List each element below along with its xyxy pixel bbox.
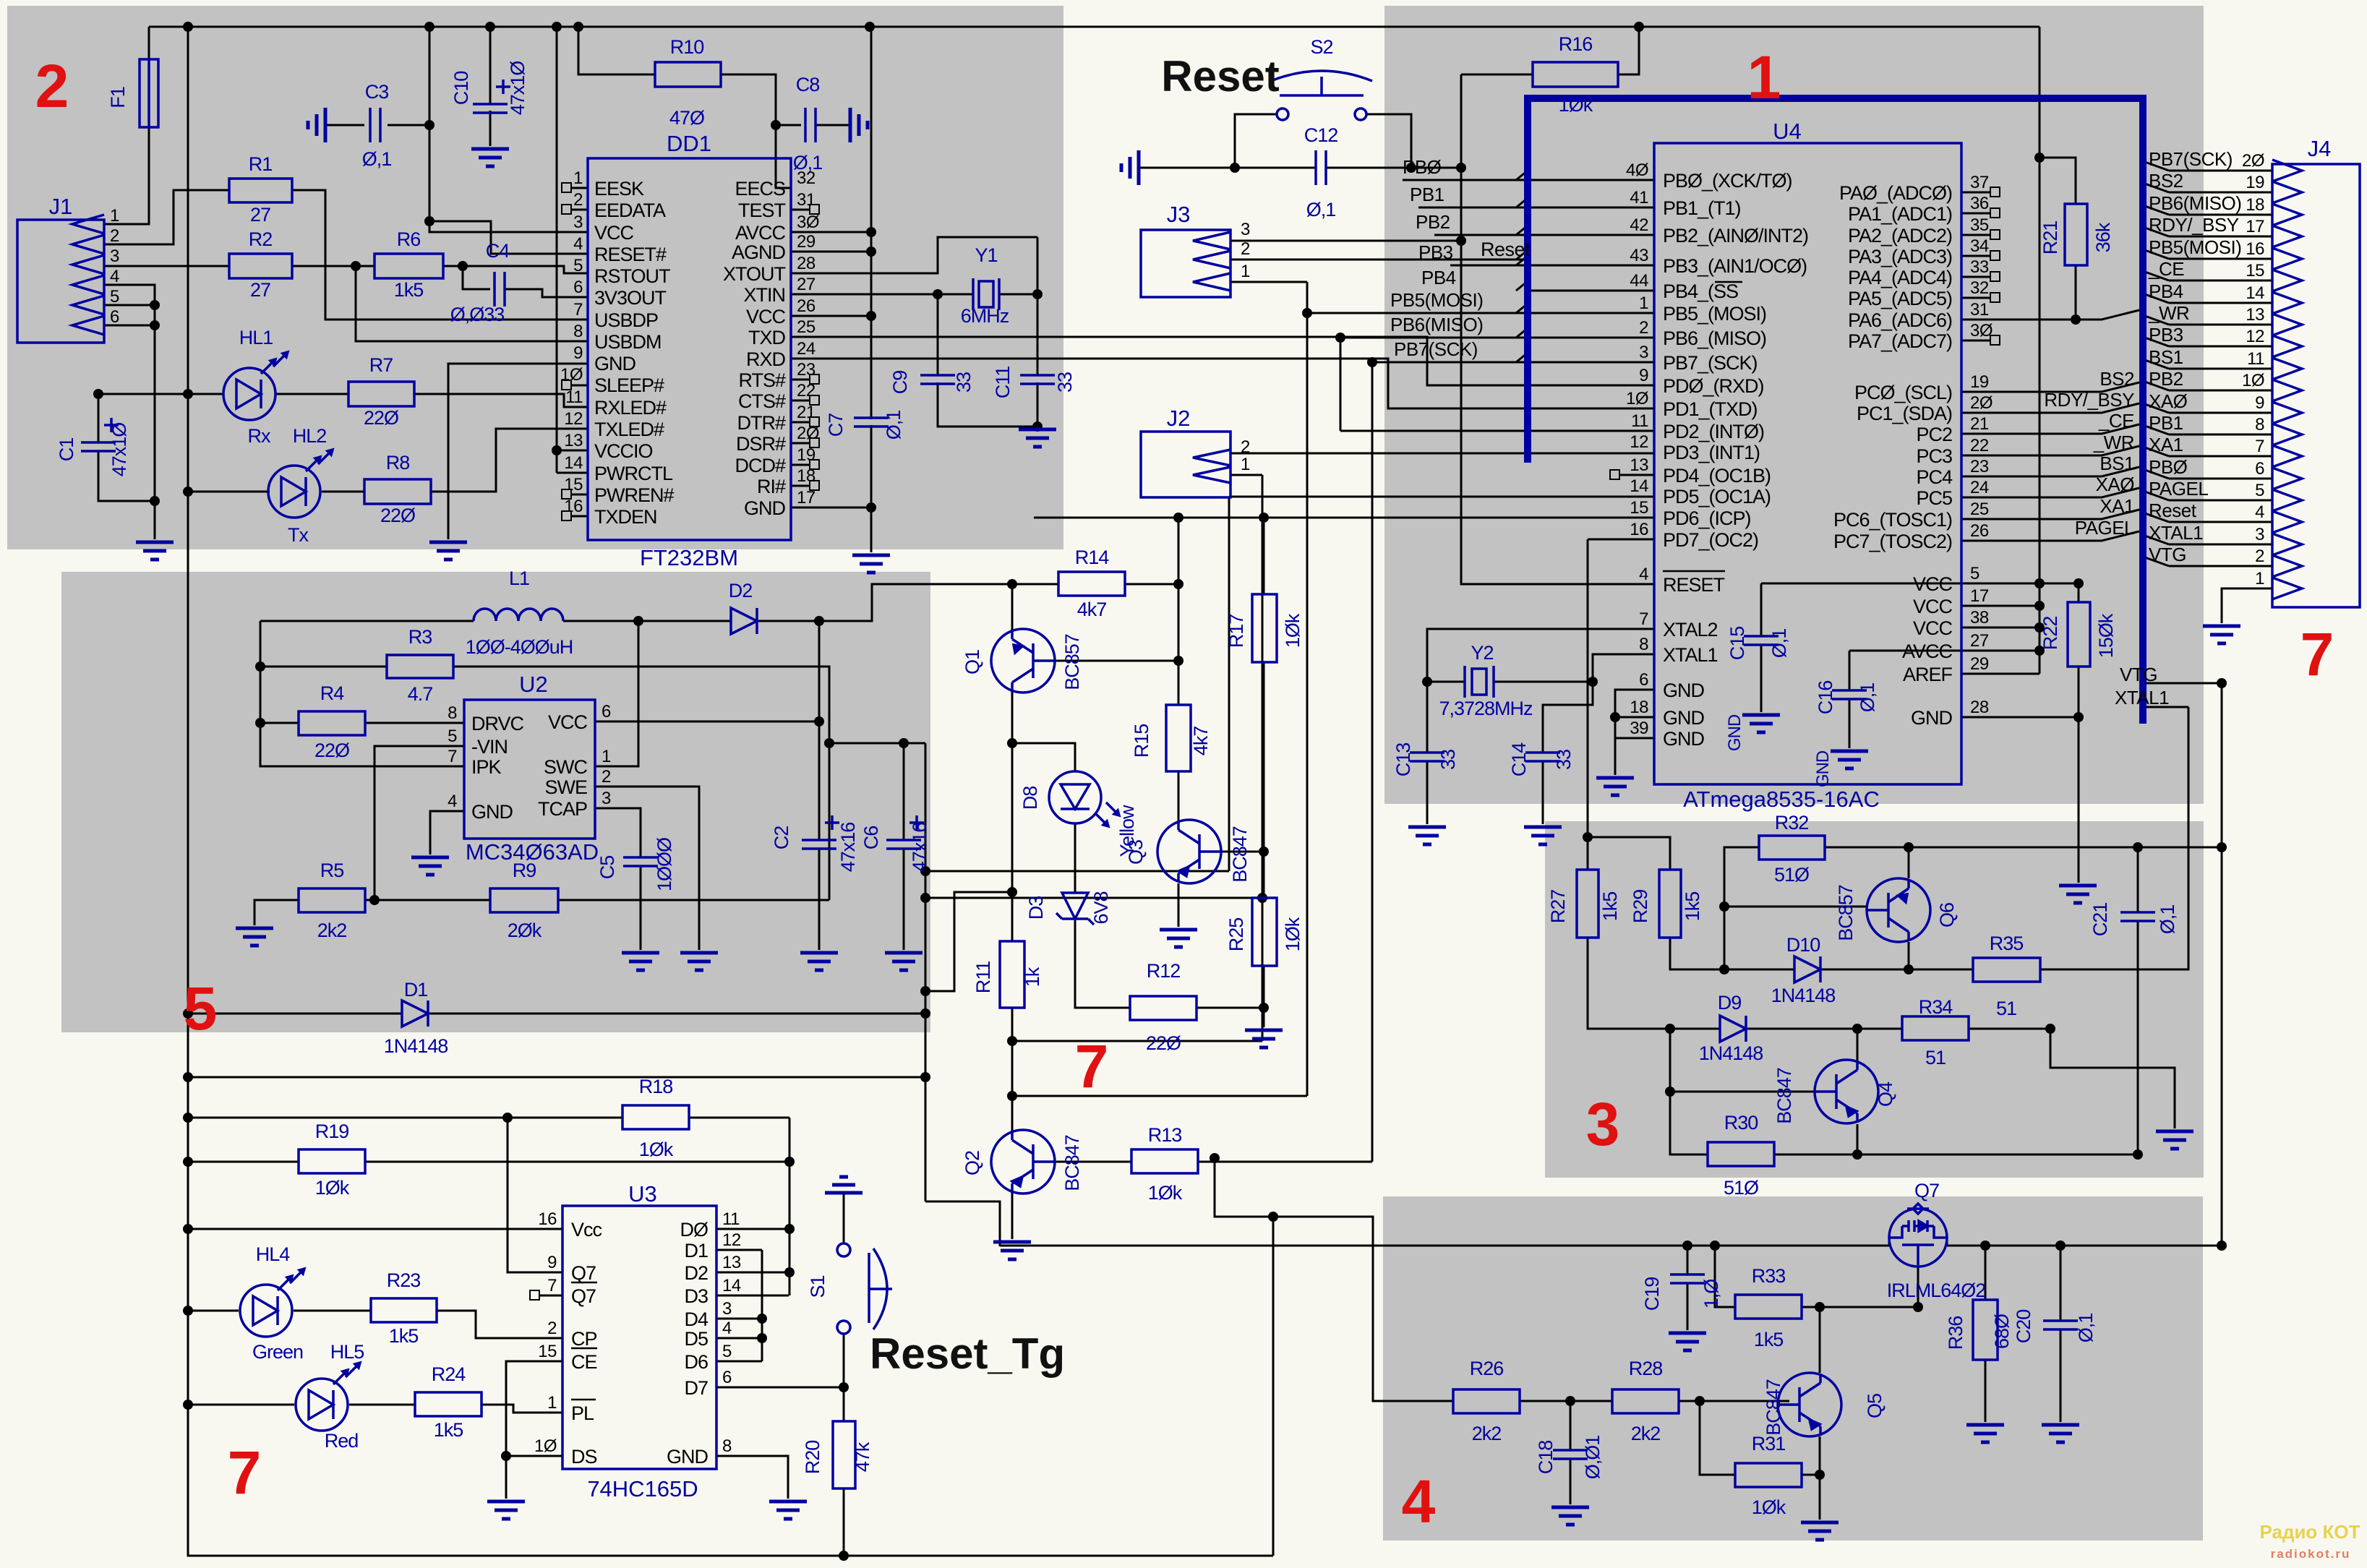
svg-text:RDY/_BSY: RDY/_BSY (2044, 389, 2134, 411)
wire U4 row PB0 (1528, 179, 1654, 181)
svg-text:R12: R12 (1147, 960, 1181, 982)
svg-text:25: 25 (797, 317, 816, 337)
wire Y2 leads (1427, 681, 1593, 683)
svg-text:17: 17 (797, 488, 816, 507)
capacitor C10 (473, 104, 508, 113)
wire Q7 lead bends (1889, 1238, 1947, 1246)
IC U4 ATmega8535 box (1654, 143, 1961, 784)
wire AREF row (1961, 673, 2039, 675)
wire GND drop (1614, 738, 1617, 775)
svg-text:GND: GND (1725, 714, 1745, 751)
svg-text:PB1: PB1 (2149, 412, 2183, 434)
capacitor C7 (854, 418, 889, 427)
svg-text:J2: J2 (1167, 406, 1191, 431)
ground (993, 1242, 1031, 1259)
junction (1173, 656, 1183, 666)
svg-text:1k5: 1k5 (434, 1419, 463, 1441)
svg-text:1k: 1k (1022, 967, 1043, 987)
svg-text:15: 15 (2246, 261, 2264, 280)
wire J1 pin3 to R2 (104, 265, 229, 267)
wire PD6 riser (1178, 518, 1180, 584)
svg-text:6V8: 6V8 (1090, 891, 1112, 924)
svg-text:1: 1 (1747, 43, 1781, 111)
junction (757, 1314, 767, 1324)
junction (1302, 308, 1312, 318)
ground (C8 right) (850, 108, 868, 142)
svg-text:Q5: Q5 (1864, 1394, 1886, 1418)
svg-text:1ØØØ: 1ØØØ (654, 837, 675, 891)
resistor R14 (1058, 572, 1125, 596)
wire R17 top riser (1263, 518, 1265, 594)
wire PA stub y513 (1961, 297, 1990, 299)
wire TXD to PD0 (791, 337, 1654, 385)
junction (2071, 314, 2081, 325)
wire PB7 SCK row (1372, 361, 1654, 364)
svg-text:PB3_(AIN1/OCØ): PB3_(AIN1/OCØ) (1663, 255, 1807, 277)
wire left drop to R30 (1670, 1029, 1708, 1154)
wire SCK vertical (1371, 362, 1374, 1162)
wire XTAL1 to R35 (2040, 707, 2188, 969)
junction (183, 1306, 193, 1316)
wire PA6 row to bus (1961, 310, 2139, 320)
svg-text:Q1: Q1 (962, 650, 983, 674)
svg-text:PB1_(T1): PB1_(T1) (1663, 197, 1741, 219)
svg-text:_CE: _CE (2098, 410, 2134, 432)
svg-text:2: 2 (2255, 547, 2264, 566)
svg-text:D5: D5 (684, 1328, 708, 1350)
svg-text:18: 18 (2246, 195, 2264, 215)
junction (1007, 579, 1017, 589)
svg-text:XTAL2: XTAL2 (1663, 619, 1718, 641)
junction (351, 261, 361, 271)
resistor R36 (1973, 1300, 1998, 1360)
wire J3 pin1 (1230, 281, 1307, 283)
wire y1490 row (188, 1076, 925, 1079)
svg-text:D8: D8 (1019, 787, 1041, 810)
junction (1456, 236, 1466, 246)
svg-text:R19: R19 (315, 1121, 349, 1142)
svg-text:Q4: Q4 (1875, 1081, 1896, 1107)
junction (2133, 842, 2143, 852)
svg-text:3Ø: 3Ø (797, 213, 819, 232)
svg-text:18: 18 (797, 466, 816, 486)
svg-text:TXLED#: TXLED# (594, 419, 664, 440)
svg-text:68Ø: 68Ø (1991, 1314, 2013, 1349)
ground (1160, 930, 1197, 947)
svg-text:7: 7 (448, 747, 457, 766)
wire R21 bottom to PA6 (2075, 265, 2077, 320)
wire R14 right (1125, 583, 1178, 586)
wire C8 row (776, 124, 850, 127)
wire J1 pin6 tie (104, 325, 155, 327)
svg-text:Reset: Reset (1481, 239, 1531, 260)
resistor R11 (1000, 941, 1024, 1008)
svg-text:J3: J3 (1167, 202, 1191, 227)
svg-text:RXLED#: RXLED# (594, 397, 667, 419)
svg-text:1Ø: 1Ø (2242, 371, 2264, 390)
svg-text:1N4148: 1N4148 (384, 1035, 448, 1057)
svg-text:R20: R20 (802, 1441, 823, 1475)
junction (757, 1333, 767, 1343)
wire S1 bottom (843, 1334, 845, 1387)
svg-text:33: 33 (1553, 750, 1575, 770)
junction (183, 1072, 193, 1082)
svg-text:31: 31 (1970, 300, 1989, 320)
svg-text:15: 15 (538, 1342, 557, 1361)
junction (502, 1113, 513, 1123)
svg-text:1: 1 (602, 747, 611, 766)
resistor R10 (655, 62, 721, 87)
svg-text:51Ø: 51Ø (1724, 1177, 1759, 1199)
svg-text:PBØ_(XCK/TØ): PBØ_(XCK/TØ) (1663, 170, 1792, 192)
nc pad (810, 417, 819, 427)
junction (1335, 333, 1345, 343)
connector J2 (1141, 432, 1230, 497)
IC DD1 FT232BM box (588, 158, 791, 540)
svg-text:3: 3 (1639, 343, 1648, 362)
wire XTOUT over crystal (791, 237, 1037, 273)
wire GND pin6 column (1615, 690, 1654, 738)
wire VCC drop to pin3 (429, 27, 588, 232)
svg-text:4Ø: 4Ø (1626, 160, 1648, 180)
svg-text:R21: R21 (2039, 221, 2061, 255)
svg-text:4: 4 (448, 792, 457, 811)
wire C18 column (1570, 1401, 1572, 1504)
resistor R13 (1131, 1149, 1198, 1173)
wire AVCC row (1849, 650, 2039, 652)
zener D3 6V8 (1056, 893, 1094, 925)
svg-text:24: 24 (1970, 478, 1989, 497)
wire PB1 left ext (1418, 207, 1528, 209)
wire U4 row PB1 (1528, 207, 1654, 209)
svg-text:7: 7 (1075, 1032, 1109, 1100)
wire U2 GND leg (430, 811, 464, 854)
svg-text:6MHz: 6MHz (961, 305, 1009, 327)
crystal Y1 6MHz (973, 278, 999, 310)
wire TCAP C5 leg (595, 808, 641, 950)
svg-text:C15: C15 (1726, 627, 1748, 661)
wire D8 to D3 (1074, 823, 1077, 893)
svg-text:D10: D10 (1786, 934, 1820, 956)
wire mid row A (925, 870, 1229, 873)
svg-text:C1: C1 (56, 438, 77, 462)
junction (424, 216, 435, 226)
wire D1 row (188, 1013, 925, 1015)
svg-text:1ØØ-4ØØuH: 1ØØ-4ØØuH (466, 636, 573, 658)
svg-text:R14: R14 (1075, 547, 1110, 568)
wire PC row y872 (1961, 488, 2139, 497)
svg-text:PL: PL (571, 1402, 594, 1424)
svg-text:SWE: SWE (544, 776, 587, 798)
svg-text:R16: R16 (1559, 33, 1593, 55)
capacitor C3 (370, 108, 380, 142)
ground (1831, 751, 1868, 768)
diode D2 (731, 608, 757, 634)
svg-text:GND: GND (594, 353, 636, 374)
wire XTAL2 to Y2 left (1427, 629, 1654, 682)
junction (183, 1157, 193, 1167)
svg-text:PB7(SCK): PB7(SCK) (1394, 338, 1478, 360)
wire J4 row y722 (2169, 521, 2272, 523)
nc pad (1610, 470, 1619, 479)
svg-text:1: 1 (2255, 569, 2264, 588)
resistor R6 (374, 254, 443, 278)
junction (1032, 421, 1043, 432)
svg-text:42: 42 (1630, 215, 1648, 235)
svg-text:6: 6 (110, 307, 119, 327)
junction (501, 1451, 511, 1461)
svg-text:EESK: EESK (594, 178, 644, 200)
wire HL1 to R7 (275, 393, 348, 395)
wire mid row B (925, 897, 1262, 899)
svg-text:S1: S1 (807, 1275, 829, 1298)
wire C16 column (1849, 651, 1851, 748)
resistor R16 (1533, 62, 1618, 87)
svg-text:PB2_(AINØ/INT2): PB2_(AINØ/INT2) (1663, 225, 1808, 247)
junction (573, 22, 583, 32)
wire XTOUT C11 leg (1037, 237, 1039, 429)
svg-text:12: 12 (722, 1230, 741, 1250)
junction (2217, 1241, 2227, 1251)
wire PA stub y325 (1961, 192, 1990, 194)
svg-text:PD1_(TXD): PD1_(TXD) (1663, 398, 1758, 420)
svg-text:PB4: PB4 (1421, 267, 1456, 288)
svg-text:VCC: VCC (1913, 573, 1953, 595)
wire EESK stub (571, 187, 588, 189)
svg-text:2: 2 (1639, 318, 1648, 338)
svg-text:Q7: Q7 (571, 1262, 596, 1284)
svg-text:CTS#: CTS# (738, 390, 786, 412)
IC U2 MC34063AD box (464, 700, 595, 839)
svg-text:BS1: BS1 (2149, 346, 2183, 368)
svg-text:7,3728MHz: 7,3728MHz (1439, 698, 1533, 719)
wire region4 rail left of Q7 (1000, 1245, 1889, 1247)
wire to VCCIO pin13 (557, 450, 588, 452)
wire node to USBDM pin8 (356, 266, 588, 341)
wire U3 GND leg (716, 1456, 788, 1499)
junction (183, 1113, 193, 1123)
svg-text:C19: C19 (1641, 1277, 1663, 1311)
svg-text:13: 13 (564, 431, 583, 450)
wire PWREN stub (571, 494, 588, 496)
wire rail to R33 (1715, 1246, 1735, 1307)
wire VCC6 row (595, 721, 819, 723)
wire R31 right (1802, 1474, 1820, 1476)
svg-text:PWRCTL: PWRCTL (594, 463, 673, 484)
svg-text:PD6_(ICP): PD6_(ICP) (1663, 507, 1751, 529)
svg-text:RESET#: RESET# (594, 244, 667, 265)
svg-text:8: 8 (448, 703, 457, 723)
junction (1719, 901, 1729, 912)
wire long right vertical (925, 743, 927, 1201)
svg-text:R30: R30 (1724, 1112, 1758, 1134)
junction (824, 738, 834, 748)
wire nCE leg (506, 1361, 562, 1499)
svg-text:Ø,1: Ø,1 (1306, 199, 1336, 220)
svg-text:6: 6 (2255, 459, 2264, 479)
LED HL2 Tx (268, 466, 320, 518)
svg-text:XTAL1: XTAL1 (1663, 644, 1718, 666)
wire Q1 collector chain (1011, 693, 1014, 941)
ground (1524, 827, 1562, 844)
wire R29 bottom (1670, 938, 1724, 969)
junction (2073, 712, 2084, 722)
svg-text:GND: GND (667, 1446, 709, 1468)
wire TXDEN stub (571, 515, 588, 518)
wire D6 row (716, 1361, 762, 1363)
svg-text:S2: S2 (1310, 36, 1332, 58)
svg-text:D4: D4 (684, 1308, 708, 1330)
junction (2034, 646, 2045, 656)
transistor lead stubs (1012, 629, 1909, 1436)
svg-text:Ø,1: Ø,1 (362, 148, 392, 170)
svg-text:R5: R5 (320, 860, 344, 881)
LED HL4 Green (240, 1285, 292, 1337)
wire R27 bottom to D9 row (1588, 938, 1670, 1029)
svg-text:D2: D2 (684, 1262, 708, 1284)
wire Q4 emitter (1857, 1124, 1859, 1154)
svg-text:7: 7 (2300, 620, 2334, 688)
svg-text:39: 39 (1630, 719, 1648, 738)
svg-text:Red: Red (325, 1430, 359, 1452)
wire GND pin17 row (791, 507, 871, 509)
wire J1 pin2 to R1 (104, 190, 229, 244)
wire R34 right (1969, 1028, 2050, 1030)
svg-text:13: 13 (722, 1253, 741, 1272)
svg-text:21: 21 (797, 403, 816, 422)
junction (458, 261, 468, 271)
svg-text:47x1Ø: 47x1Ø (108, 422, 130, 477)
junction (1710, 1241, 1720, 1251)
wire riser to bottom rail (1272, 1217, 1275, 1556)
svg-text:6: 6 (1639, 670, 1648, 690)
svg-text:7: 7 (547, 1276, 557, 1295)
svg-text:XA1: XA1 (2100, 495, 2134, 517)
wire row y1516 (1012, 1095, 1307, 1097)
junction (1665, 1087, 1675, 1097)
svg-text:R35: R35 (1990, 933, 2024, 954)
wire C4 branch to 3V3OUT pin6 (463, 266, 588, 297)
wire PA stub y363 (1961, 213, 1990, 215)
wire S2 left contact wire (1235, 114, 1277, 168)
svg-text:5: 5 (573, 256, 583, 275)
svg-text:VCCIO: VCCIO (594, 440, 653, 462)
svg-text:XTAL1: XTAL1 (2115, 687, 2169, 708)
wire J4 row y479 (2169, 346, 2272, 348)
LED HL5 Red (296, 1379, 348, 1431)
svg-text:23: 23 (797, 360, 816, 380)
shaded block 2 (7, 6, 1063, 549)
svg-text:27: 27 (797, 275, 816, 294)
svg-text:PAGEL: PAGEL (2075, 517, 2134, 539)
svg-text:4: 4 (722, 1319, 732, 1338)
svg-text:IRLML64Ø2: IRLML64Ø2 (1887, 1280, 1986, 1301)
svg-text:TCAP: TCAP (538, 798, 587, 820)
wire J4 row y327 (2169, 236, 2272, 238)
junction (552, 445, 562, 455)
svg-text:4k7: 4k7 (1190, 727, 1212, 756)
nc pad (810, 374, 819, 384)
resistor R1 (229, 179, 292, 202)
svg-text:14: 14 (1630, 476, 1648, 496)
junction (183, 1008, 193, 1019)
svg-text:Y1: Y1 (975, 244, 997, 266)
ground (429, 542, 467, 560)
junction (1695, 1396, 1705, 1406)
wire SWE leg (595, 787, 699, 950)
svg-text:PD3_(INT1): PD3_(INT1) (1663, 442, 1760, 463)
diode D10 1N4148 (1794, 956, 1820, 982)
wire R4 left (260, 722, 299, 724)
wire J4 row y236 (2169, 170, 2272, 172)
junction (150, 320, 160, 330)
wire TEST stub (791, 209, 810, 211)
wire VCC right riser (2039, 27, 2041, 674)
wire R22 bottom to gnd (2078, 583, 2080, 883)
svg-text:PB5(MOSI): PB5(MOSI) (1390, 289, 1483, 311)
junction (920, 893, 930, 903)
svg-text:C2: C2 (771, 826, 792, 850)
svg-text:14: 14 (2246, 283, 2264, 303)
resistor R18 (622, 1105, 689, 1129)
wire VCC pin5 row (1761, 583, 2079, 585)
junction (866, 247, 876, 257)
capacitor C9 (920, 375, 955, 384)
svg-text:VCC: VCC (1913, 617, 1953, 639)
svg-text:CP: CP (571, 1328, 597, 1350)
svg-text:R28: R28 (1629, 1358, 1663, 1379)
wire J4 row y631 (2169, 455, 2272, 458)
junction (866, 311, 876, 321)
svg-text:HL1: HL1 (239, 327, 273, 348)
svg-text:Q7: Q7 (1914, 1180, 1939, 1201)
wire R31 left leg (1700, 1401, 1735, 1475)
wire J4 row y571 (2169, 412, 2272, 414)
wire J4 row y753 (2169, 544, 2272, 546)
svg-text:Ø,1: Ø,1 (2075, 1314, 2097, 1343)
svg-text:1: 1 (1639, 294, 1648, 313)
wire VCC pin38 row (1961, 627, 2039, 629)
wire MISO vertical (1340, 338, 1342, 431)
svg-text:1N4148: 1N4148 (1699, 1042, 1763, 1064)
svg-text:PC3: PC3 (1916, 445, 1952, 467)
wire PC row y764 (1961, 424, 2139, 434)
capacitor C20 (2043, 1321, 2078, 1329)
wire R34 to gnd leg (2050, 1029, 2175, 1128)
svg-text:PB2: PB2 (2149, 368, 2183, 390)
wire GND pin9 drop (448, 364, 588, 539)
junction (183, 1224, 193, 1234)
wire C10 column (489, 27, 492, 146)
wire Q5 collector to R33 row (1819, 1307, 1821, 1373)
wire AGND row (791, 251, 871, 253)
wire J4 row y540 (2169, 390, 2272, 392)
wire C7 column (870, 27, 873, 552)
svg-text:22: 22 (797, 381, 816, 400)
capacitor C12 (1316, 150, 1326, 185)
wire PB5 MOSI row (1307, 312, 1654, 314)
wire IPK leg (260, 621, 464, 766)
svg-text:BS2: BS2 (2149, 170, 2183, 192)
wire GND pin18 (1615, 716, 1654, 719)
junction (183, 1400, 193, 1410)
wire L1 to D2 (563, 620, 731, 622)
svg-text:74HC165D: 74HC165D (587, 1476, 698, 1501)
ground (1019, 429, 1056, 447)
wire row to xB bottom (1012, 1040, 1262, 1042)
wire AVCC to VCC column (791, 231, 871, 234)
junction (784, 1224, 795, 1234)
